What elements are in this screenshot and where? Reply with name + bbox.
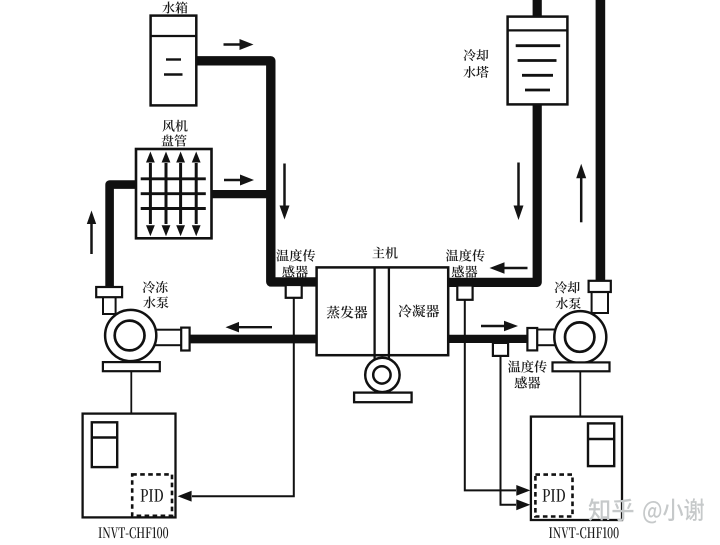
- chilled pump outlet duct: [140, 330, 182, 346]
- cooling pump P2 body: [554, 311, 606, 363]
- flow arrow left (condenser top pipe): [503, 267, 528, 270]
- compressor motor circle: [365, 358, 399, 392]
- cooling pump inlet flange: [527, 328, 537, 350]
- wire: evaporator outlet pipe to chilled pump flange: [189, 335, 318, 344]
- compressor base plate: [354, 393, 412, 403]
- temp sensor T-cond-in box: [457, 286, 472, 300]
- compressor motor inner circle: [373, 366, 390, 383]
- label 温度传感器 (temp sensor, condenser in): [446, 249, 485, 261]
- label PID (right): [543, 489, 565, 501]
- wire: condenser top pipe up through cooling tower: [448, 0, 537, 282]
- label 冷却水泵 (cooling water pump): [555, 281, 580, 293]
- cooling pump impeller circle: [565, 322, 594, 351]
- inverter VFD2 box: [531, 417, 622, 520]
- cooling tower top line: [508, 29, 568, 31]
- label 冷凝器 (condenser): [398, 304, 439, 317]
- wire: fan coil left pipe down to chilled pump: [110, 185, 137, 289]
- chiller main box: [317, 267, 449, 355]
- wire: cond-in sensor to right PID with arrow: [465, 300, 516, 491]
- inverter VFD1 box: [83, 414, 176, 518]
- chilled pump suction neck: [103, 292, 116, 314]
- label INVT-CHF100 (right inverter): [549, 527, 619, 538]
- label 冷冻水泵 (chilled water pump): [143, 281, 168, 293]
- label PID (left): [141, 489, 163, 501]
- water tank level line 2: [164, 73, 183, 75]
- cooling tower fill line 1: [516, 44, 561, 47]
- wire: chilled sensor to left PID with arrow: [192, 298, 294, 496]
- flow arrow down (tank downpipe): [283, 164, 286, 208]
- fan coil coil lines (3 horizontal): [141, 177, 206, 180]
- flow arrow right (tank outlet): [224, 43, 242, 46]
- chiller divider line left: [373, 267, 375, 359]
- label 主机 (main unit): [372, 247, 397, 259]
- water tank level line 1: [166, 58, 181, 60]
- cooling tower body: [508, 17, 568, 105]
- inverter VFD2 display panel: [588, 423, 614, 466]
- PID block (left inverter): [132, 474, 172, 515]
- inverter VFD1 display panel: [92, 422, 117, 467]
- temp sensor T-chilled box: [286, 285, 302, 298]
- flow arrow up (tower return): [580, 176, 583, 222]
- chilled pump P1 body: [105, 310, 156, 361]
- wire: cooling tower return pipe down to cooling pump: [596, 0, 606, 282]
- wire: cooling pump to inverter control line: [579, 371, 581, 416]
- water tank lid line: [151, 35, 197, 37]
- cooling pump suction neck: [592, 286, 608, 313]
- label 风机盘管 (fan coil): [162, 120, 187, 132]
- flow arrow right (condenser outlet): [481, 325, 506, 327]
- cooling tower fill line 3: [522, 74, 553, 77]
- flow arrow right (fan coil outlet): [224, 179, 242, 182]
- PID block (right inverter): [535, 475, 572, 517]
- label 温度传感器 (temp sensor, chilled supply): [276, 249, 315, 261]
- temp sensor T-cool-out box: [493, 343, 508, 356]
- cooling tower fill line 4: [525, 89, 550, 92]
- watermark 知乎 @小谢: [589, 498, 634, 521]
- label 水箱 (water tank): [162, 1, 187, 13]
- cooling tower fill line 2: [518, 59, 557, 62]
- wire: water tank outlet pipe, right then down then left into evaporator: [196, 61, 318, 282]
- label 温度传感器 (temp sensor, cooling out): [508, 360, 547, 372]
- water tank T1 body: [151, 16, 197, 106]
- wire: condenser bottom outlet pipe to cooling pump flange: [448, 335, 529, 343]
- fan coil unit box: [136, 149, 212, 238]
- label 冷却水塔 (cooling tower): [464, 49, 489, 61]
- cooling pump top flange: [589, 281, 611, 292]
- chilled pump outlet flange: [181, 328, 189, 351]
- wire: chilled pump to inverter control line: [130, 372, 132, 414]
- label 蒸发器 (evaporator): [327, 306, 368, 319]
- chilled pump impeller circle: [115, 321, 145, 351]
- wire: cool-out sensor to right PID with arrow: [501, 356, 517, 505]
- fan coil air arrows (4 vertical double arrows): [149, 163, 152, 224]
- wire: fan coil right pipe to tank downpipe (tee): [211, 190, 271, 198]
- cooling pump base plate: [553, 362, 610, 371]
- cooling pump inlet duct: [534, 330, 564, 346]
- label INVT-CHF100 (left inverter): [99, 527, 169, 538]
- chilled pump base plate: [103, 362, 160, 371]
- flow arrow down (tower feed): [517, 163, 520, 208]
- flow arrow up (left riser): [90, 222, 93, 254]
- chilled pump top flange: [96, 287, 122, 297]
- chiller divider line right: [388, 267, 390, 359]
- flow arrow left (evaporator outlet): [237, 326, 272, 328]
